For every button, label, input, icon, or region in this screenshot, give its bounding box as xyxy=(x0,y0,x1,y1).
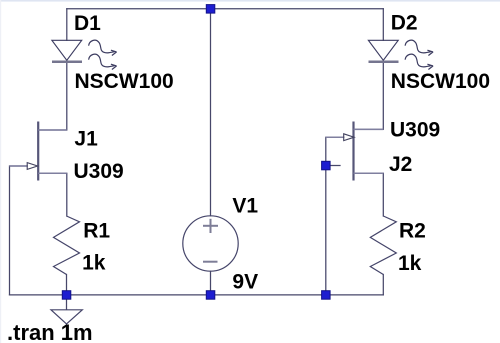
svg-text:D2: D2 xyxy=(391,12,418,35)
wire top rail xyxy=(67,8,384,10)
wire D2 cathode to J2 drain xyxy=(354,61,384,130)
voltage source V1 xyxy=(183,216,238,271)
transistor J1 xyxy=(10,122,67,181)
node bottom center xyxy=(206,291,215,300)
svg-text:D1: D1 xyxy=(74,12,101,35)
svg-text:NSCW100: NSCW100 xyxy=(75,70,174,93)
wire left column upper xyxy=(66,9,68,41)
wire center column bottom xyxy=(210,271,212,295)
svg-text:R1: R1 xyxy=(83,220,110,243)
wire D1 cathode to J1 drain xyxy=(38,61,67,131)
resistor R2 xyxy=(370,216,396,275)
svg-text:U309: U309 xyxy=(74,160,124,183)
resistor R1 xyxy=(54,216,80,275)
transistor J2 xyxy=(326,122,384,181)
node bottom left xyxy=(62,291,71,300)
svg-text:1k: 1k xyxy=(82,251,106,274)
svg-text:R2: R2 xyxy=(399,220,426,243)
top window edge artifact xyxy=(0,0,500,2)
node J2 gate xyxy=(322,161,331,170)
svg-text:J1: J1 xyxy=(74,127,98,150)
svg-text:V1: V1 xyxy=(232,195,258,218)
wire J2 gate to bottom rail xyxy=(326,137,344,295)
wire R2 bottom lead xyxy=(382,275,384,295)
svg-text:1k: 1k xyxy=(398,252,422,275)
node top center xyxy=(206,5,215,14)
svg-text:U309: U309 xyxy=(390,118,440,141)
wire J2 source to R2 xyxy=(354,173,384,216)
svg-text:J2: J2 xyxy=(389,153,412,176)
diode D2 xyxy=(368,40,433,69)
wire J1 source to R1 xyxy=(38,173,67,216)
node bottom right xyxy=(322,291,331,300)
wire center column top xyxy=(210,9,212,216)
svg-text:NSCW100: NSCW100 xyxy=(391,70,490,93)
svg-text:.tran 1m: .tran 1m xyxy=(7,320,93,343)
svg-text:9V: 9V xyxy=(232,271,258,294)
wire J1 gate to bottom rail xyxy=(10,166,28,295)
wire stub at J2 gate node xyxy=(326,165,340,167)
wire R1 bottom lead xyxy=(66,275,68,295)
wire right column upper xyxy=(382,9,384,41)
ground xyxy=(51,295,82,324)
diode D1 xyxy=(52,40,117,69)
wire bottom rail xyxy=(10,294,384,296)
